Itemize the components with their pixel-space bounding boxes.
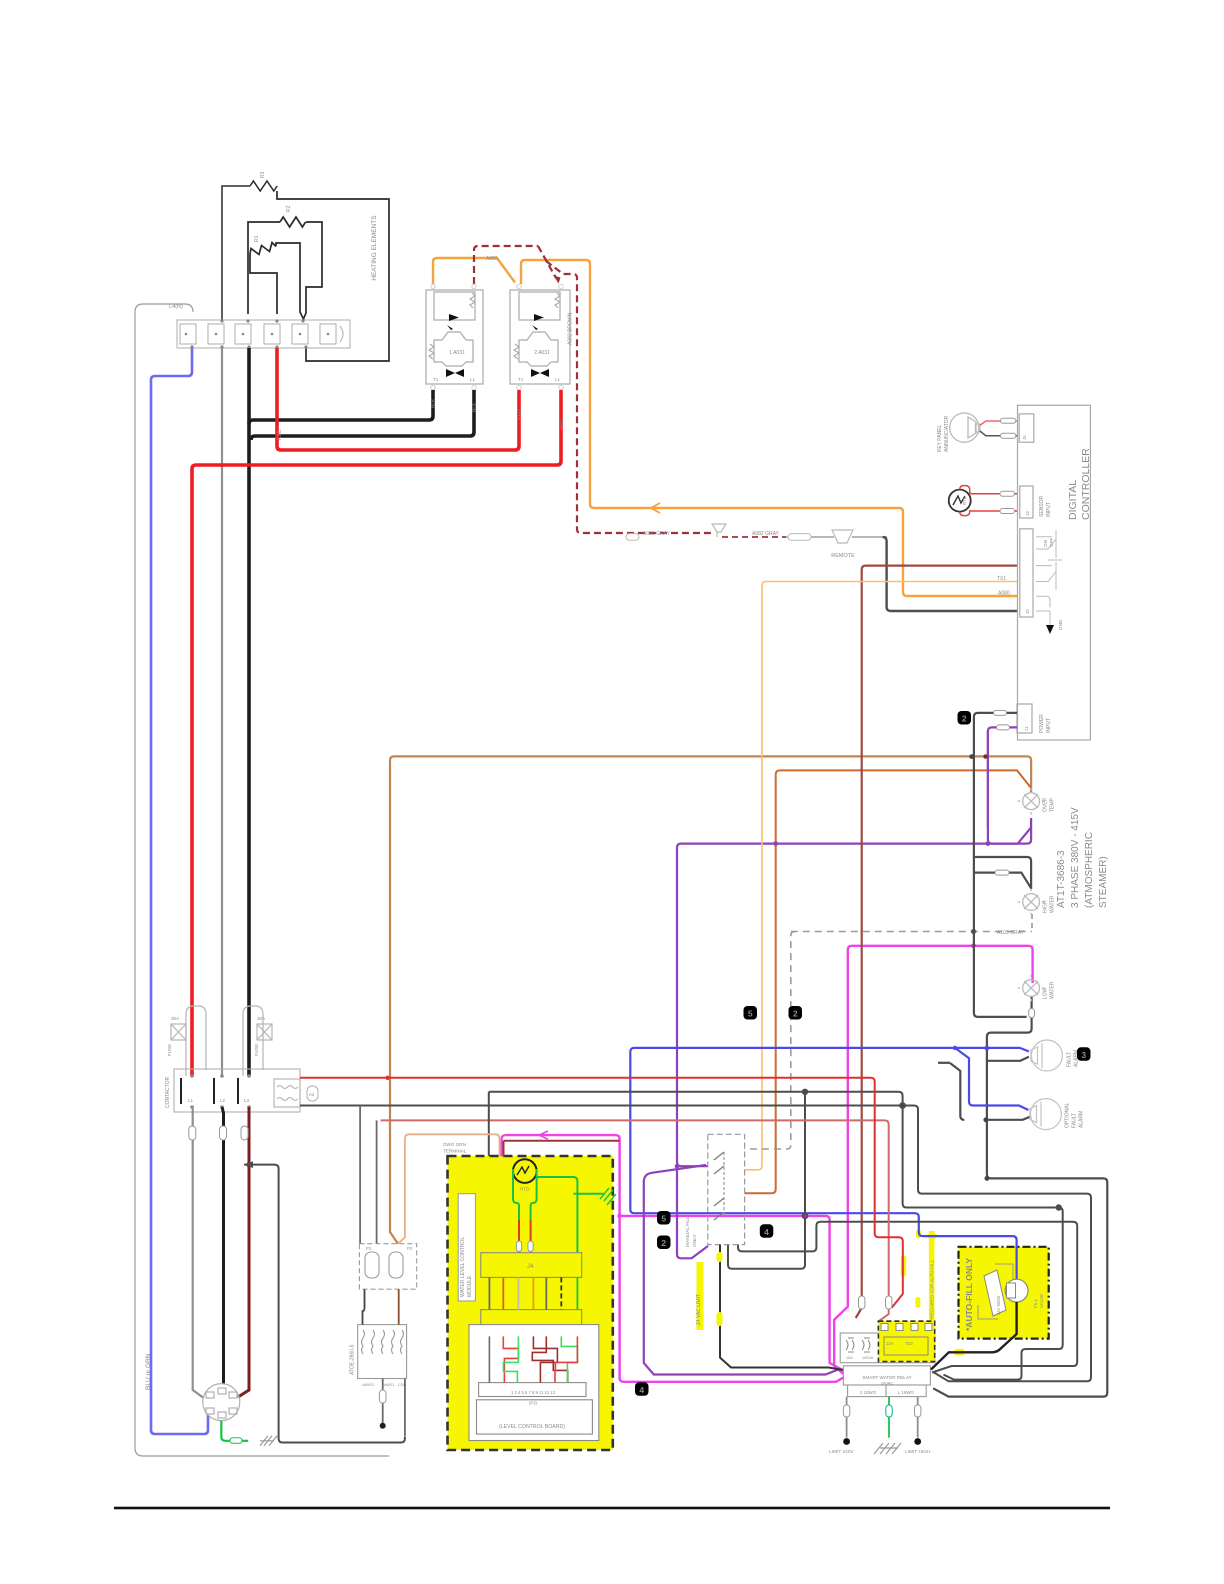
svg-text:FUSE: FUSE — [254, 1044, 259, 1056]
svg-text:DIGITAL: DIGITAL — [1067, 480, 1079, 520]
svg-text:ONLY: ONLY — [692, 1233, 698, 1247]
svg-text:FAULT: FAULT — [1072, 1113, 1078, 1128]
svg-text:2 A031: 2 A031 — [534, 350, 550, 356]
svg-text:OFF: OFF — [1049, 538, 1054, 547]
svg-text:J1: J1 — [1024, 726, 1029, 731]
svg-text:FILL: FILL — [1033, 1298, 1038, 1308]
svg-text:30A: 30A — [257, 1016, 266, 1021]
svg-text:15A: 15A — [846, 1356, 853, 1360]
svg-text:KEY PANEL: KEY PANEL — [937, 424, 943, 452]
svg-text:VALVE: VALVE — [1039, 1294, 1044, 1308]
svg-text:4: 4 — [639, 1385, 644, 1395]
svg-text:2: 2 — [793, 1009, 798, 1019]
svg-text:ON: ON — [1043, 540, 1048, 547]
svg-text:R2: R2 — [286, 205, 292, 212]
svg-text:RED: RED — [559, 419, 565, 430]
svg-text:WATER: WATER — [1050, 895, 1056, 913]
svg-text:2: 2 — [962, 714, 967, 724]
svg-text:L1: L1 — [555, 377, 561, 382]
svg-text:24 VAC LIMIT: 24 VAC LIMIT — [696, 1294, 702, 1325]
svg-text:24VAC: 24VAC — [881, 1380, 893, 1385]
svg-text:RTD: RTD — [520, 1186, 530, 1191]
svg-text:LIMIT HIGH: LIMIT HIGH — [905, 1449, 931, 1455]
svg-text:P2: P2 — [407, 1246, 413, 1251]
svg-text:3 PHASE 380V - 415V: 3 PHASE 380V - 415V — [1070, 807, 1081, 908]
svg-text:CONTACTOR: CONTACTOR — [165, 1076, 171, 1108]
svg-text:TERMINAL: TERMINAL — [443, 1149, 467, 1154]
svg-text:100VA: 100VA — [862, 1356, 874, 1360]
svg-text:(P3): (P3) — [529, 1401, 538, 1406]
svg-text:30A: 30A — [171, 1016, 180, 1021]
svg-text:RTD: RTD — [962, 496, 967, 505]
svg-text:HIGH: HIGH — [1043, 900, 1049, 913]
svg-text:A082 GRAY: A082 GRAY — [752, 531, 780, 537]
svg-text:WATER: WATER — [1050, 981, 1056, 999]
svg-text:A080: A080 — [486, 256, 498, 262]
svg-text:HEATING ELEMENTS: HEATING ELEMENTS — [371, 215, 378, 281]
svg-text:LOW: LOW — [1043, 987, 1049, 999]
svg-text:RED: RED — [277, 429, 283, 440]
svg-text:ANNUNCIATOR: ANNUNCIATOR — [944, 415, 950, 452]
svg-text:ALARM: ALARM — [1079, 1111, 1085, 1128]
svg-text:INPUT: INPUT — [1046, 502, 1052, 517]
svg-text:3: 3 — [1081, 1050, 1086, 1060]
svg-text:CONTROLLER: CONTROLLER — [1080, 448, 1092, 520]
svg-text:(ATMOSPHERIC: (ATMOSPHERIC — [1084, 832, 1095, 908]
svg-text:1 A031: 1 A031 — [449, 350, 465, 356]
svg-text:5: 5 — [748, 1009, 753, 1019]
svg-text:TD2: TD2 — [905, 1341, 914, 1346]
svg-text:REMOTE: REMOTE — [831, 553, 855, 559]
svg-text:GND: GND — [1058, 619, 1063, 630]
svg-text:2AWG1: 2AWG1 — [382, 1383, 394, 1387]
svg-text:BLK: BLK — [472, 402, 478, 412]
svg-text:FAULT: FAULT — [1067, 1052, 1073, 1067]
svg-text:TEMP: TEMP — [1050, 797, 1056, 812]
svg-text:*REQUIRED FOR AUTO-FILL: *REQUIRED FOR AUTO-FILL — [929, 1259, 934, 1320]
svg-text:L3: L3 — [244, 1098, 250, 1103]
svg-text:LIMIT 240V: LIMIT 240V — [829, 1449, 855, 1455]
svg-text:DWG GRN: DWG GRN — [443, 1142, 466, 1147]
svg-text:OPTIONAL: OPTIONAL — [1065, 1102, 1071, 1128]
svg-text:1 2 4 5 6 7 8 9 11 12: 1 2 4 5 6 7 8 9 11 12 13 — [511, 1390, 556, 1395]
svg-text:24V 50/60: 24V 50/60 — [996, 1295, 1001, 1315]
svg-text:R3: R3 — [260, 171, 266, 178]
svg-text:4: 4 — [764, 1227, 769, 1237]
svg-text:12A: 12A — [886, 1341, 894, 1346]
svg-text:J2: J2 — [1025, 609, 1030, 614]
svg-text:MODULE: MODULE — [467, 1275, 473, 1297]
svg-text:J4: J4 — [527, 1264, 534, 1270]
svg-text:A082 BROWN: A082 BROWN — [568, 312, 574, 345]
svg-text:2 18WG: 2 18WG — [860, 1390, 877, 1395]
svg-text:L1: L1 — [188, 1098, 194, 1103]
svg-text:L2: L2 — [220, 1098, 226, 1103]
svg-text:T1: T1 — [433, 377, 439, 382]
svg-text:J3: J3 — [1025, 511, 1030, 516]
svg-text:4AWG1: 4AWG1 — [362, 1383, 374, 1387]
svg-text:5: 5 — [661, 1214, 666, 1224]
svg-text:SMART WATER RELAY: SMART WATER RELAY — [862, 1375, 911, 1380]
svg-text:FUSE: FUSE — [167, 1044, 172, 1056]
svg-text:2: 2 — [661, 1238, 666, 1248]
svg-text:TX1: TX1 — [997, 576, 1006, 582]
svg-text:P1: P1 — [366, 1246, 372, 1251]
svg-text:L 18WG: L 18WG — [898, 1390, 915, 1395]
svg-text:AT1T-3686-3: AT1T-3686-3 — [1056, 850, 1067, 908]
svg-text:OVER: OVER — [1043, 797, 1049, 812]
svg-text:A080: A080 — [998, 591, 1010, 597]
svg-text:R1: R1 — [254, 235, 260, 242]
svg-text:J5: J5 — [1022, 435, 1027, 440]
svg-text:POWER: POWER — [1039, 714, 1045, 733]
svg-text:A081 GRAY: A081 GRAY — [643, 531, 671, 537]
svg-text:(LEVEL CONTROL BOARD): (LEVEL CONTROL BOARD) — [499, 1424, 565, 1430]
svg-text:ATOE-2860-5: ATOE-2860-5 — [350, 1344, 356, 1375]
svg-text:SENSOR: SENSOR — [1039, 495, 1045, 517]
svg-text:WATER LEVEL CONTROL: WATER LEVEL CONTROL — [460, 1237, 466, 1297]
svg-text:*AUTO-FILL ONLY: *AUTO-FILL ONLY — [964, 1258, 974, 1331]
svg-text:STEAMER): STEAMER) — [1098, 856, 1109, 908]
svg-text:BLK: BLK — [431, 398, 437, 408]
svg-text:RED: RED — [517, 409, 523, 420]
svg-text:A103 GRAY: A103 GRAY — [997, 930, 1025, 936]
svg-text:T1: T1 — [518, 377, 524, 382]
svg-text:L1: L1 — [470, 377, 476, 382]
svg-text:A2: A2 — [309, 1092, 315, 1097]
svg-text:INPUT: INPUT — [1046, 718, 1052, 733]
svg-text:MANUAL FILL: MANUAL FILL — [685, 1216, 691, 1247]
svg-text:L4(N): L4(N) — [169, 304, 183, 310]
